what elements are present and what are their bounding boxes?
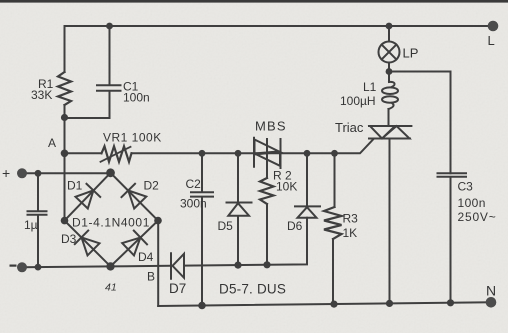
svg-text:MBS: MBS xyxy=(255,119,287,134)
junction 1u bottom xyxy=(35,264,42,271)
svg-text:A: A xyxy=(48,136,56,150)
resistor R2 xyxy=(260,178,274,204)
svg-text:+: + xyxy=(2,165,10,181)
diode D1 xyxy=(76,184,101,209)
svg-text:D5-7. DUS: D5-7. DUS xyxy=(219,282,286,297)
capacitor C1 xyxy=(65,26,121,118)
terminal N xyxy=(486,297,497,308)
trigger device MBS xyxy=(254,138,281,178)
junction C1 top xyxy=(106,23,113,30)
svg-text:D1: D1 xyxy=(67,179,83,193)
svg-text:10K: 10K xyxy=(276,180,297,194)
wire: R3 to N rail xyxy=(332,239,334,304)
junction 1u top xyxy=(35,170,42,177)
junction lamp top xyxy=(386,23,393,30)
svg-text:B: B xyxy=(147,270,155,284)
diode D6 xyxy=(295,153,320,217)
diode bridge frame xyxy=(65,173,159,267)
svg-text:LP: LP xyxy=(403,46,419,61)
wire: bridge right corner down to N rail xyxy=(157,221,159,306)
junction R3 top xyxy=(331,150,338,157)
svg-text:VR1 100K: VR1 100K xyxy=(103,131,162,145)
svg-text:41: 41 xyxy=(105,282,117,294)
capacitor C2 xyxy=(191,153,213,305)
junction bridge right xyxy=(154,217,162,225)
junction lamp bottom xyxy=(386,68,393,75)
terminal L xyxy=(488,21,499,32)
svg-text:D3: D3 xyxy=(61,232,77,246)
wire: plus rail xyxy=(22,172,111,174)
svg-text:33K: 33K xyxy=(31,88,52,102)
lamp LP xyxy=(388,26,390,42)
label minus xyxy=(10,265,17,267)
svg-text:300n: 300n xyxy=(180,197,207,211)
top page edge bar xyxy=(0,0,508,3)
inductor L1 xyxy=(389,82,395,87)
svg-text:N: N xyxy=(486,283,496,299)
potentiometer VR1 xyxy=(102,146,132,162)
svg-text:C2: C2 xyxy=(186,177,202,191)
svg-text:C3: C3 xyxy=(458,180,474,194)
junction C3 bottom xyxy=(447,299,454,306)
junction bridge bottom xyxy=(106,262,114,270)
capacitor C3 xyxy=(438,173,467,303)
diode D3 xyxy=(75,231,100,256)
node A junction xyxy=(61,150,69,158)
junction R3 bottom xyxy=(330,301,337,308)
terminal plus xyxy=(17,168,27,178)
wire: mid rail to triac gate junction xyxy=(132,152,335,154)
svg-text:D6: D6 xyxy=(287,219,303,233)
wire: R2 to minus rail xyxy=(266,204,268,265)
wire: mid rail left segment from node A xyxy=(65,152,102,154)
svg-text:100µH: 100µH xyxy=(340,94,376,108)
wire: triac to N rail xyxy=(389,139,391,304)
junction triac bottom xyxy=(386,300,393,307)
junction C2 bottom xyxy=(198,302,206,310)
svg-text:D1-4.1N4001: D1-4.1N4001 xyxy=(72,216,150,230)
svg-text:D4: D4 xyxy=(138,250,154,264)
diode D2 xyxy=(122,184,147,209)
junction D6 top xyxy=(304,150,311,157)
resistor R3 xyxy=(334,153,336,207)
wire: snubber branch over to C3 xyxy=(389,72,451,174)
junction R2 bottom xyxy=(263,261,270,268)
svg-text:Triac: Triac xyxy=(335,120,364,135)
junction bridge left xyxy=(61,217,69,225)
svg-text:D7: D7 xyxy=(169,281,186,296)
svg-text:R3: R3 xyxy=(343,212,359,226)
wire: triac gate lead xyxy=(335,140,374,154)
svg-text:D5: D5 xyxy=(218,219,234,233)
svg-text:1µ: 1µ xyxy=(24,218,38,232)
junction D5 top xyxy=(235,150,242,157)
diode D5 xyxy=(227,153,252,265)
junction C2 top xyxy=(199,150,206,157)
svg-text:L: L xyxy=(488,33,495,48)
wire: left column down to bridge left corner xyxy=(64,26,66,221)
capacitor 1u xyxy=(28,173,47,267)
svg-text:D2: D2 xyxy=(144,179,160,193)
triac xyxy=(369,126,411,139)
svg-text:100n: 100n xyxy=(458,196,486,210)
svg-text:L1: L1 xyxy=(363,80,377,94)
wire: top L rail xyxy=(65,25,494,27)
svg-text:250V~: 250V~ xyxy=(458,210,497,224)
diode D4 xyxy=(122,231,147,256)
junction R1-C1 xyxy=(61,114,68,121)
wire: minus rail xyxy=(22,218,307,268)
svg-text:1K: 1K xyxy=(343,226,358,240)
svg-text:100n: 100n xyxy=(123,91,150,105)
junction D5 bottom xyxy=(234,262,241,269)
junction bridge top xyxy=(106,168,115,177)
terminal minus xyxy=(17,262,27,272)
diode D7 xyxy=(171,253,184,278)
wire: N rail xyxy=(158,302,491,306)
resistor R1 xyxy=(58,72,71,105)
